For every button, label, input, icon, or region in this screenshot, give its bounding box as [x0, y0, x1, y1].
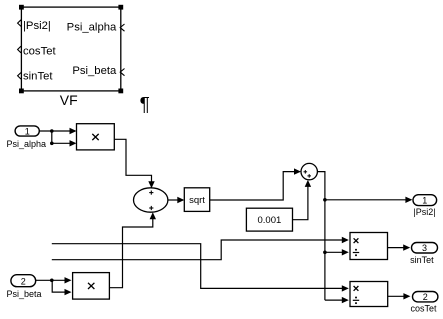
divide2 divide sign — [353, 297, 359, 305]
svg-text:sqrt: sqrt — [189, 195, 205, 206]
svg-text:3: 3 — [422, 243, 427, 253]
VF port chevron left cosTet — [18, 46, 21, 53]
arrowhead divide1 dividend — [342, 237, 349, 243]
svg-text:Psi_alpha: Psi_alpha — [67, 21, 117, 33]
svg-text:|Psi2|: |Psi2| — [413, 207, 435, 217]
VF port chevron right Psi_beta — [120, 69, 124, 76]
product block 1 — [77, 124, 115, 150]
svg-text:Psi_alpha: Psi_alpha — [7, 139, 47, 149]
arrowhead sum top — [148, 181, 154, 188]
svg-text:sinTet: sinTet — [23, 70, 53, 82]
selection handle top-left — [19, 5, 24, 10]
junction Psi_alpha lower — [50, 142, 54, 146]
arrowhead product2 input2 — [65, 289, 72, 295]
junction Psi_beta — [50, 279, 54, 283]
selection handle bottom-right — [118, 89, 123, 94]
output port 3 oval — [412, 243, 438, 254]
wire Psi_alpha drop to input2 — [52, 131, 75, 143]
svg-text:0.001: 0.001 — [258, 215, 282, 226]
VF port chevron right Psi_alpha — [120, 24, 124, 31]
wire to divide2 divisor — [325, 299, 347, 301]
small sum plus left — [304, 170, 308, 174]
wire sqrt to small sum circle — [210, 172, 300, 200]
divide1 divide sign — [353, 249, 359, 257]
divide block 1 — [350, 233, 388, 260]
divide1 multiply sign — [354, 238, 359, 243]
wire product2 to sum ellipse bottom — [109, 214, 152, 288]
product2 multiply sign — [88, 283, 94, 289]
wire Psi_alpha feed to divide2 dividend — [52, 244, 347, 289]
wire divide1 to output 3 — [388, 247, 409, 249]
wire to output |Psi2| — [325, 199, 411, 201]
arrowhead output |Psi2| — [405, 197, 412, 203]
input port 1 oval — [15, 126, 39, 136]
sum ellipse plus bottom — [149, 206, 153, 210]
sum ellipse plus top — [149, 191, 153, 195]
arrowhead output 2 — [403, 293, 410, 299]
svg-text:Psi_beta: Psi_beta — [72, 65, 117, 77]
wire product1 to sum ellipse top — [114, 139, 151, 186]
svg-text:1: 1 — [422, 196, 427, 206]
wire to divide1 divisor — [325, 251, 347, 253]
selection handle top-right — [118, 5, 123, 10]
svg-text:cosTet: cosTet — [23, 45, 57, 57]
VF port chevron left sinTet — [18, 73, 21, 80]
input port 2 oval — [11, 275, 36, 287]
arrowhead divide2 divisor — [342, 297, 349, 303]
wire sum ellipse to sqrt — [168, 199, 183, 201]
svg-text:sinTet: sinTet — [410, 255, 434, 265]
arrowhead small sum left input — [294, 168, 301, 174]
junction Psi_alpha — [50, 129, 54, 133]
product1 multiply sign — [92, 134, 98, 140]
divide block 2 — [350, 282, 388, 307]
svg-text:¶: ¶ — [140, 94, 150, 115]
subsystem VF block body — [21, 7, 120, 91]
sum ellipse — [134, 188, 168, 212]
VF port chevron left |Psi2| — [18, 20, 21, 27]
wire small sum output down the bus — [317, 172, 325, 301]
arrowhead product1 input1 — [70, 128, 77, 134]
arrowhead sqrt input — [177, 197, 184, 203]
arrowhead divide1 divisor — [342, 249, 349, 255]
arrowhead output 3 — [403, 244, 410, 250]
arrowhead product1 input2 — [70, 140, 77, 146]
wire Psi_alpha to product1 input1 — [39, 130, 75, 132]
selection handle bottom-left — [19, 89, 24, 94]
svg-text:|Psi2|: |Psi2| — [23, 20, 51, 32]
svg-text:1: 1 — [25, 126, 30, 136]
constant block 0.001 — [246, 208, 292, 231]
arrowhead small sum bottom input — [305, 180, 311, 187]
output port 2 oval — [413, 292, 438, 302]
arrowhead sum bottom — [150, 212, 156, 219]
small sum circle — [301, 163, 317, 179]
wire 0.001 to small sum bottom — [293, 182, 308, 220]
output port 1 oval — [413, 195, 437, 206]
svg-text:VF: VF — [60, 92, 78, 108]
divide2 multiply sign — [354, 286, 359, 291]
svg-text:2: 2 — [21, 277, 26, 287]
wire divide2 to output 2 — [388, 295, 409, 297]
wire Psi_beta to product2 input1 — [36, 279, 70, 281]
small sum plus bottom — [307, 174, 311, 178]
svg-text:cosTet: cosTet — [410, 304, 437, 314]
wire Psi_beta drop to input2 — [52, 280, 70, 292]
junction at |Psi2| branch — [323, 198, 327, 202]
arrowhead product2 input1 — [65, 277, 72, 283]
svg-text:2: 2 — [423, 292, 428, 302]
arrowhead divide2 dividend — [342, 285, 349, 291]
product block 2 — [73, 273, 110, 300]
sqrt block — [184, 188, 209, 212]
junction at divide1 branch — [323, 251, 327, 255]
svg-text:Psi_beta: Psi_beta — [6, 289, 41, 299]
wire Psi_beta feed to divide1 dividend — [52, 240, 347, 260]
